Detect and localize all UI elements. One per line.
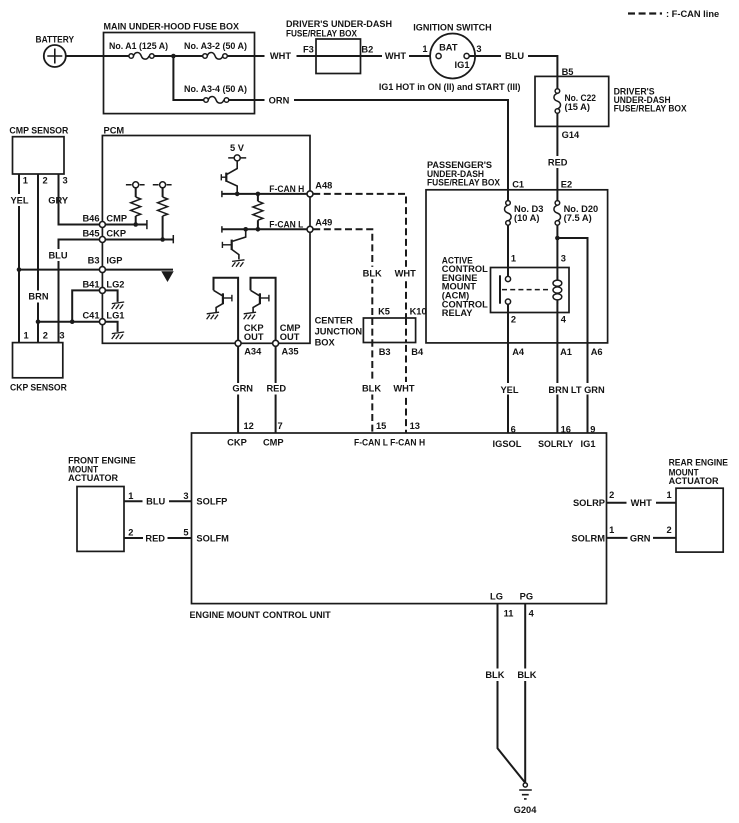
label GRN	[229, 383, 258, 395]
wire WHT SOLRP to rear actuator pin1	[607, 502, 677, 504]
PCM	[102, 136, 310, 344]
svg-text:C1: C1	[512, 179, 524, 189]
svg-text:WHT: WHT	[385, 51, 406, 61]
svg-text:2: 2	[43, 330, 48, 340]
svg-text:2: 2	[43, 176, 48, 186]
wire BLU ignition to driver's box B5	[469, 56, 557, 76]
resistor R2	[162, 188, 164, 197]
label GRN 3	[628, 532, 654, 544]
svg-text:YEL: YEL	[500, 385, 518, 395]
svg-text:1: 1	[128, 491, 133, 501]
svg-text:PG: PG	[520, 591, 533, 601]
svg-text:A48: A48	[315, 181, 332, 191]
ground LG1	[112, 332, 125, 339]
svg-text:LG2: LG2	[106, 280, 124, 290]
wire ORN to passenger's fuse box C1	[229, 100, 508, 201]
label BLU 3	[143, 495, 170, 507]
svg-text:7: 7	[278, 421, 283, 431]
svg-text:JUNCTION: JUNCTION	[315, 326, 363, 336]
svg-text:SOLRM: SOLRM	[571, 533, 605, 543]
svg-text:4: 4	[561, 315, 567, 325]
svg-text:ACTUATOR: ACTUATOR	[68, 473, 118, 483]
svg-text:BLU: BLU	[146, 497, 165, 507]
5V supply	[228, 157, 246, 159]
engine mount control unit	[192, 433, 607, 604]
wire YEL CMP pin1 to CKP pin1	[18, 174, 20, 343]
svg-text:B41: B41	[82, 280, 99, 290]
pin B3	[99, 267, 105, 273]
svg-text:IG1: IG1	[455, 60, 470, 70]
node resistor-FCANH junction	[256, 192, 261, 197]
wire RED front actuator pin2 to SOLFM	[124, 537, 192, 539]
center junction box	[363, 318, 415, 343]
svg-text:A1: A1	[560, 347, 572, 357]
pin C41	[99, 319, 105, 325]
front engine mount actuator	[77, 487, 124, 552]
transistor Q2	[233, 229, 246, 241]
svg-text:ORN: ORN	[269, 95, 290, 105]
svg-text:1: 1	[422, 44, 427, 54]
svg-text:5 V: 5 V	[230, 143, 245, 153]
svg-text:No. A3-2 (50 A): No. A3-2 (50 A)	[184, 41, 247, 51]
wire relay pin 2 to ECU pin 6 YEL	[507, 304, 509, 433]
svg-text:PCM: PCM	[104, 125, 125, 135]
pin A34	[235, 340, 241, 346]
svg-text:F3: F3	[303, 44, 314, 54]
svg-text:B3: B3	[88, 256, 100, 266]
svg-text:BRN: BRN	[548, 385, 568, 395]
svg-text:(15 A): (15 A)	[565, 102, 591, 112]
legend F-CAN line dashed sample	[628, 12, 662, 14]
svg-text:WHT: WHT	[393, 383, 414, 393]
label BRN 2	[28, 291, 49, 303]
relay armature bar	[499, 275, 501, 303]
svg-text:4: 4	[529, 608, 535, 618]
svg-text:3: 3	[476, 44, 481, 54]
wire WHT fuse box to ignition switch	[227, 55, 436, 57]
svg-text:MAIN UNDER-HOOD FUSE BOX: MAIN UNDER-HOOD FUSE BOX	[104, 22, 240, 32]
svg-text:LG: LG	[490, 591, 503, 601]
svg-text:B46: B46	[82, 214, 99, 224]
svg-text:IGP: IGP	[106, 256, 122, 266]
label WHT 3	[627, 497, 657, 509]
svg-text:WHT: WHT	[270, 51, 291, 61]
svg-text:BLU: BLU	[505, 51, 524, 61]
label BLK pg	[516, 669, 538, 682]
ground LG2	[112, 302, 125, 309]
label WHT	[265, 50, 297, 62]
svg-text:GRN: GRN	[232, 383, 253, 393]
wire branch down to fuse A3-4	[173, 56, 203, 100]
svg-text:2: 2	[609, 490, 614, 500]
wire IGP inside PCM with arrow	[105, 269, 173, 271]
svg-text:ACTUATOR: ACTUATOR	[669, 476, 719, 486]
svg-text:RELAY: RELAY	[442, 308, 473, 318]
label WHT 2	[382, 50, 409, 62]
svg-text:RED: RED	[145, 533, 165, 543]
node YEL-IGP junction	[17, 267, 22, 272]
svg-text:BLK: BLK	[362, 383, 381, 393]
svg-text:5: 5	[183, 527, 188, 537]
transistor Q1	[227, 161, 237, 174]
label BLK lg	[484, 669, 506, 682]
svg-text:FUSE/RELAY BOX: FUSE/RELAY BOX	[286, 28, 358, 38]
ground Q4	[244, 312, 257, 319]
pin A35	[273, 340, 279, 346]
label YEL	[497, 383, 521, 395]
node resistor-FCANL junction	[256, 227, 261, 232]
wire B5 into fuse C22	[556, 76, 558, 88]
svg-text:SOLFP: SOLFP	[196, 497, 227, 507]
svg-text:A34: A34	[244, 347, 262, 357]
svg-text:CMP SENSOR: CMP SENSOR	[9, 125, 68, 135]
svg-text:RED: RED	[548, 158, 568, 168]
svg-text:LT GRN: LT GRN	[571, 385, 605, 395]
ACM control relay box	[491, 268, 570, 313]
svg-text:G204: G204	[514, 805, 538, 815]
label BLK fcan	[362, 267, 384, 279]
node LG2-LG1 junction	[70, 319, 75, 324]
ignition switch	[430, 34, 475, 79]
rear engine mount actuator	[676, 488, 723, 552]
svg-text:SOLFM: SOLFM	[196, 533, 229, 543]
fuse No. D3 (10 A)	[505, 205, 512, 221]
node junction at fuse branch	[171, 54, 176, 59]
svg-text:FUSE/RELAY BOX: FUSE/RELAY BOX	[614, 103, 688, 113]
pin A49	[307, 226, 313, 232]
svg-text:RED: RED	[266, 383, 286, 393]
wire BRN CMP pin2 to CKP pin2	[37, 174, 39, 343]
svg-text:1: 1	[609, 525, 614, 535]
wire F-CAN L dashed	[313, 229, 372, 433]
relay dashed actuation line	[502, 289, 549, 291]
wire F-CAN L inside PCM	[222, 228, 310, 230]
svg-text:3: 3	[59, 330, 64, 340]
pull-up circle R2	[153, 184, 172, 186]
svg-text:B2: B2	[361, 44, 373, 54]
svg-text:A49: A49	[315, 218, 332, 228]
battery	[44, 45, 66, 67]
wire IGP to PCM B3	[19, 269, 99, 271]
wire CKP inside PCM	[105, 239, 173, 241]
wire LG1	[38, 321, 99, 323]
node junction on E2 line	[555, 236, 560, 241]
svg-text:GRN: GRN	[630, 533, 651, 543]
ground Q3	[207, 312, 220, 319]
label YEL 2	[9, 194, 30, 206]
label RED 3	[143, 532, 168, 544]
svg-text:FUSE/RELAY BOX: FUSE/RELAY BOX	[427, 178, 501, 188]
svg-text:BLK: BLK	[485, 670, 504, 680]
fuse No. C22 (15 A)	[554, 93, 561, 109]
wire GRN SOLRM to rear actuator pin2	[607, 537, 677, 539]
transistor Q3 CKP OUT	[214, 278, 239, 344]
svg-text:IG1: IG1	[581, 439, 596, 449]
svg-text:IG1 HOT in ON (II) and START (: IG1 HOT in ON (II) and START (III)	[379, 82, 521, 92]
wire RED G14 to passenger's box E2	[556, 113, 558, 200]
svg-text:G14: G14	[562, 130, 580, 140]
node R1-CMP junction	[133, 222, 138, 227]
svg-text:BLU: BLU	[48, 250, 67, 260]
svg-text:C41: C41	[82, 310, 99, 320]
svg-text:B3: B3	[379, 347, 391, 357]
svg-text:1: 1	[23, 176, 28, 186]
svg-text:: F-CAN line: : F-CAN line	[666, 9, 719, 19]
svg-text:SOLRP: SOLRP	[573, 498, 605, 508]
wire RED A35 to ECU pin 7	[275, 346, 277, 433]
pin A48	[307, 191, 313, 197]
wire battery to fuse A1	[66, 55, 129, 57]
svg-text:F-CAN H: F-CAN H	[390, 437, 425, 447]
svg-text:OUT: OUT	[244, 332, 264, 342]
passenger's under-dash fuse/relay box	[426, 190, 608, 343]
pin B41	[99, 287, 105, 293]
wire fuse D20 to relay pin 3	[556, 225, 558, 280]
svg-text:CMP: CMP	[106, 214, 127, 224]
relay coil	[556, 276, 558, 304]
svg-text:B5: B5	[562, 67, 574, 77]
wire BLU front actuator pin1 to SOLFP	[124, 500, 192, 502]
label GRY	[48, 194, 70, 206]
svg-text:A6: A6	[591, 347, 603, 357]
svg-text:BOX: BOX	[315, 337, 336, 347]
relay contact bottom	[505, 299, 510, 304]
label BLK 2	[361, 382, 383, 395]
fuse No. D20 (7.5 A)	[554, 205, 561, 221]
svg-text:BATTERY: BATTERY	[36, 34, 75, 44]
svg-text:No. A3-4 (50 A): No. A3-4 (50 A)	[184, 84, 247, 94]
svg-text:12: 12	[244, 421, 254, 431]
svg-text:3: 3	[561, 253, 566, 263]
svg-text:2: 2	[667, 525, 672, 535]
fuse No. A1 (125 A)	[133, 53, 149, 60]
svg-text:B45: B45	[82, 228, 99, 238]
node Q2-FCANL junction	[243, 227, 248, 232]
wire fuse D3 to relay pin 1	[507, 225, 509, 276]
driver's under-dash fuse/relay box C22	[535, 76, 609, 126]
svg-text:1: 1	[24, 330, 29, 340]
svg-text:WHT: WHT	[631, 498, 652, 508]
label RED	[547, 156, 569, 168]
wire BLK PG to G204	[524, 604, 526, 783]
svg-text:(7.5 A): (7.5 A)	[564, 213, 592, 223]
svg-text:3: 3	[183, 491, 188, 501]
junction box dashed pass-through	[371, 318, 373, 343]
svg-text:ENGINE MOUNT CONTROL UNIT: ENGINE MOUNT CONTROL UNIT	[190, 610, 332, 620]
svg-text:IGNITION SWITCH: IGNITION SWITCH	[413, 22, 492, 32]
svg-text:YEL: YEL	[10, 195, 28, 205]
svg-text:CKP: CKP	[106, 228, 126, 238]
svg-text:13: 13	[410, 421, 420, 431]
svg-text:WHT: WHT	[395, 268, 416, 278]
label BLU	[501, 50, 528, 62]
transistor Q4 CMP OUT	[251, 278, 276, 344]
wire CMP inside PCM	[105, 224, 146, 226]
label WHT fcan	[394, 267, 418, 279]
wire F-CAN H dashed	[313, 194, 406, 433]
svg-text:BLK: BLK	[517, 670, 536, 680]
label BLU 2	[48, 249, 68, 261]
svg-text:SOLRLY: SOLRLY	[538, 439, 574, 449]
svg-text:3: 3	[63, 176, 68, 186]
driver's under-dash fuse/relay box F3	[316, 39, 361, 74]
svg-text:K5: K5	[378, 307, 390, 317]
wire GRY CMP pin3 to PCM B46	[59, 174, 100, 225]
node Q1-FCANH junction	[235, 192, 240, 197]
label ORN	[265, 94, 295, 106]
svg-text:A35: A35	[282, 347, 299, 357]
svg-text:BLK: BLK	[363, 268, 382, 278]
svg-text:CKP: CKP	[227, 437, 247, 447]
svg-text:No. A1 (125 A): No. A1 (125 A)	[109, 41, 168, 51]
ground G204	[523, 783, 527, 787]
svg-text:CENTER: CENTER	[315, 315, 354, 325]
fuse No. A3-4 (50 A)	[208, 97, 224, 104]
fuse No. A3-2 (50 A)	[207, 53, 223, 60]
svg-text:CMP: CMP	[263, 437, 284, 447]
main under-hood fuse box	[104, 33, 255, 114]
wire GRN A34 to ECU pin 12	[237, 346, 239, 433]
svg-text:(10 A): (10 A)	[514, 213, 540, 223]
CKP sensor	[13, 343, 63, 378]
svg-text:E2: E2	[561, 179, 572, 189]
svg-text:1: 1	[511, 253, 516, 263]
wire relay pin 4 to ECU pin 16 BRN	[556, 300, 558, 433]
svg-text:K10: K10	[410, 307, 427, 317]
wire branch to A6	[557, 238, 587, 433]
svg-text:LG1: LG1	[106, 310, 124, 320]
svg-text:B4: B4	[411, 347, 424, 357]
wire LG2	[72, 290, 99, 321]
svg-text:CKP SENSOR: CKP SENSOR	[10, 383, 67, 393]
wire F-CAN H inside PCM	[222, 193, 310, 195]
pin B46	[99, 222, 105, 228]
svg-text:15: 15	[376, 421, 386, 431]
node R2-CKP junction	[160, 237, 165, 242]
svg-text:A4: A4	[512, 347, 525, 357]
svg-text:REAR ENGINE: REAR ENGINE	[669, 458, 728, 468]
resistor R1	[135, 188, 137, 197]
svg-text:BAT: BAT	[439, 42, 458, 52]
wire BLK LG to G204	[498, 604, 526, 783]
wire A1 to A3-2	[154, 55, 203, 57]
relay contact top	[505, 276, 510, 281]
CMP sensor	[13, 137, 65, 174]
svg-text:2: 2	[128, 527, 133, 537]
pin B45	[99, 237, 105, 243]
svg-text:11: 11	[504, 608, 514, 618]
label BRN	[547, 383, 571, 395]
label LT GRN	[572, 383, 605, 395]
label WHT 2b	[393, 382, 416, 395]
svg-text:OUT: OUT	[280, 332, 300, 342]
svg-text:1: 1	[667, 490, 672, 500]
svg-text:F-CAN L: F-CAN L	[269, 220, 303, 230]
svg-text:2: 2	[511, 315, 516, 325]
ground Q2	[232, 260, 245, 267]
svg-text:IGSOL: IGSOL	[493, 439, 522, 449]
svg-text:BRN: BRN	[28, 292, 48, 302]
node BRN-LG1 junction	[36, 319, 41, 324]
wire BLU PCM B45 to CKP pin3	[59, 240, 100, 343]
label RED 2	[265, 383, 288, 395]
pull-up circle R1	[126, 184, 145, 186]
svg-text:F-CAN L: F-CAN L	[354, 437, 388, 447]
resistor R3 between F-CAN H and L	[257, 194, 259, 201]
svg-text:F-CAN H: F-CAN H	[269, 184, 304, 194]
